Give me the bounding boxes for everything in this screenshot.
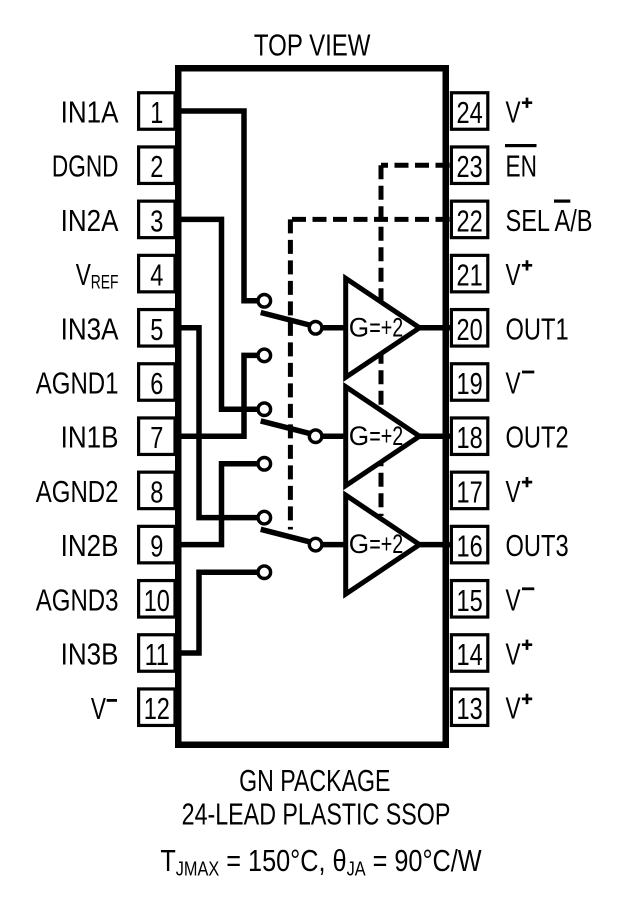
svg-text:V: V	[506, 582, 521, 617]
svg-text:10: 10	[144, 583, 170, 618]
svg-text:V: V	[506, 690, 521, 725]
pin 16 box	[451, 526, 487, 563]
pin 1 box	[139, 93, 175, 130]
IC package outline GN SSOP	[178, 68, 446, 745]
svg-text:TOP VIEW: TOP VIEW	[254, 28, 371, 63]
switch S3 pole A terminal	[258, 511, 271, 524]
wire IN2B pin9 to switch S2 pole B	[178, 464, 258, 545]
wire op-amp A2 output to pin 18 OUT2	[417, 433, 452, 439]
pin 8 box	[139, 472, 175, 509]
wire SEL A/B dashed vertical	[288, 219, 293, 529]
switch S2 blade	[261, 421, 310, 434]
pin 22 box	[451, 201, 487, 238]
pin 5 box	[139, 310, 175, 347]
op-amp A1	[346, 278, 420, 377]
wire EN dashed horizontal from pin 23	[381, 163, 450, 168]
pin 3 box	[139, 201, 175, 238]
pin 19 box	[451, 364, 487, 401]
op-amp A2	[346, 387, 420, 486]
wire IN1A pin1 to switch S1 pole A	[178, 111, 258, 301]
svg-text:V: V	[506, 636, 521, 671]
wire IN3B pin11 to switch S3 pole B	[178, 572, 258, 653]
svg-text:15: 15	[457, 583, 483, 618]
svg-text:V: V	[91, 691, 106, 726]
wire op-amp A3 output to pin 16 OUT3	[417, 542, 452, 548]
svg-text:21: 21	[457, 257, 483, 292]
wire IN3A pin5 to switch S3 pole A	[178, 328, 258, 518]
wire switch S3 common to op-amp A3	[321, 542, 347, 548]
svg-text:16: 16	[457, 528, 483, 563]
svg-text:A/B: A/B	[555, 203, 593, 238]
switch S3 blade	[261, 529, 310, 542]
svg-text:IN3A: IN3A	[61, 312, 120, 347]
op-amp A3	[346, 495, 420, 594]
svg-text:13: 13	[457, 691, 483, 726]
svg-text:18: 18	[457, 420, 483, 455]
svg-text:IN2B: IN2B	[61, 529, 119, 564]
svg-text:IN3B: IN3B	[61, 637, 119, 672]
wire switch S1 common to op-amp A1	[321, 325, 347, 331]
svg-text:AGND1: AGND1	[36, 366, 119, 401]
pin 14 box	[451, 635, 487, 672]
svg-text:OUT1: OUT1	[506, 311, 569, 346]
switch S2 pole B terminal	[258, 458, 271, 471]
pin 11 box	[139, 635, 175, 672]
svg-text:OUT3: OUT3	[506, 528, 569, 563]
svg-text:7: 7	[150, 420, 163, 455]
svg-text:V: V	[506, 473, 521, 508]
pin 24 box	[451, 93, 487, 130]
svg-text:11: 11	[145, 637, 169, 672]
pin 17 box	[451, 472, 487, 509]
svg-text:5: 5	[150, 312, 163, 347]
svg-text:8: 8	[150, 474, 163, 509]
svg-text:TJMAX = 150°C, θJA = 90°C/W: TJMAX = 150°C, θJA = 90°C/W	[160, 842, 482, 879]
svg-text:AGND3: AGND3	[36, 582, 119, 617]
svg-text:=+2: =+2	[369, 422, 403, 452]
svg-text:22: 22	[457, 203, 483, 238]
svg-text:12: 12	[144, 691, 170, 726]
pin 4 box	[139, 255, 175, 292]
svg-text:IN2A: IN2A	[61, 204, 120, 239]
svg-text:V: V	[506, 94, 521, 129]
pin 13 box	[451, 689, 487, 726]
svg-text:1: 1	[150, 95, 163, 130]
svg-text:DGND: DGND	[52, 148, 119, 183]
wire SEL A/B dashed horizontal from pin 22	[290, 217, 449, 222]
switch S1 pole B terminal	[258, 349, 271, 362]
pin 9 box	[139, 526, 175, 563]
svg-text:EN: EN	[506, 148, 537, 183]
svg-text:IN1B: IN1B	[61, 421, 119, 456]
svg-text:AGND2: AGND2	[36, 474, 119, 509]
pin 15 box	[451, 581, 487, 618]
switch S1 pole A terminal	[258, 295, 271, 308]
svg-text:OUT2: OUT2	[506, 420, 569, 455]
switch S2 pole A terminal	[258, 403, 271, 416]
svg-text:=+2: =+2	[369, 314, 403, 344]
svg-text:G: G	[349, 420, 369, 450]
switch S2 common terminal	[309, 430, 322, 443]
svg-text:GN PACKAGE: GN PACKAGE	[239, 763, 390, 798]
svg-text:V: V	[506, 257, 521, 292]
svg-text:6: 6	[150, 366, 163, 401]
switch S1 common terminal	[309, 322, 322, 335]
pin 12 box	[139, 689, 175, 726]
svg-text:4: 4	[150, 257, 163, 292]
svg-text:IN1A: IN1A	[61, 95, 120, 130]
svg-text:G: G	[349, 312, 369, 342]
wire switch S2 common to op-amp A2	[321, 433, 347, 439]
wire IN2A pin3 to switch S2 pole A	[178, 219, 258, 409]
switch S3 pole B terminal	[258, 566, 271, 579]
switch S1 blade	[261, 313, 310, 326]
pin 6 box	[139, 364, 175, 401]
svg-text:=+2: =+2	[369, 530, 403, 560]
wire IN1B pin7 to switch S1 pole B	[178, 355, 258, 436]
pin 7 box	[139, 418, 175, 455]
pin 2 box	[139, 147, 175, 184]
svg-text:V: V	[506, 365, 521, 400]
svg-text:SEL: SEL	[506, 203, 551, 238]
wire op-amp A1 output to pin 20 OUT1	[417, 325, 452, 331]
pin 18 box	[451, 418, 487, 455]
svg-text:9: 9	[150, 528, 163, 563]
svg-text:24: 24	[457, 95, 483, 130]
switch S3 common terminal	[309, 538, 322, 551]
wire EN dashed vertical	[379, 165, 384, 516]
svg-text:17: 17	[457, 474, 483, 509]
svg-text:14: 14	[457, 637, 483, 672]
pin 23 box	[451, 147, 487, 184]
svg-text:23: 23	[457, 149, 483, 184]
svg-text:3: 3	[150, 203, 163, 238]
pin 10 box	[139, 581, 175, 618]
svg-text:2: 2	[150, 149, 163, 184]
svg-text:24-LEAD PLASTIC SSOP: 24-LEAD PLASTIC SSOP	[182, 796, 451, 831]
svg-text:20: 20	[457, 312, 483, 347]
svg-text:VREF: VREF	[76, 257, 119, 294]
svg-text:G: G	[349, 529, 369, 559]
pin 20 box	[451, 310, 487, 347]
pin 21 box	[451, 255, 487, 292]
svg-text:19: 19	[457, 366, 483, 401]
